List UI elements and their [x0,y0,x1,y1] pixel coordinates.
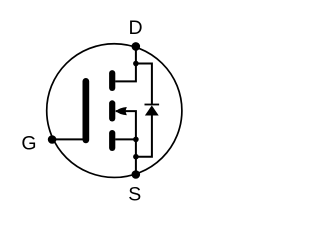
substrate arrow pointing to channel [116,107,127,115]
wire: body-diode top branch from drain node to diode cathode [136,64,152,105]
junction dot: drain/diode node [133,61,139,67]
wire: source/body vertical from middle bar down to S terminal [116,111,136,174]
terminal dot D [132,42,141,51]
wire: body-diode bottom branch to source node [136,115,152,157]
terminal dot S [132,170,141,179]
body diode cathode bar [145,104,160,106]
transistor envelope circle [47,44,182,178]
terminal dot G [48,135,57,144]
svg-text:G: G [21,132,36,154]
channel segment (body) [109,100,115,121]
svg-text:S: S [128,184,141,206]
channel segment (drain) [109,70,115,91]
body diode anode triangle [145,105,159,115]
wire: source horizontal from bottom channel bar [115,138,136,140]
junction dot: diode/source node [133,154,139,160]
svg-text:D: D [128,17,142,39]
junction dot: source bar node [133,137,139,143]
wire: gate horizontal from G terminal to gate bar [52,138,83,140]
channel segment (source) [109,130,115,151]
gate electrode bar [83,78,90,143]
wire: drain vertical from D terminal down and left to top channel bar [115,46,136,81]
